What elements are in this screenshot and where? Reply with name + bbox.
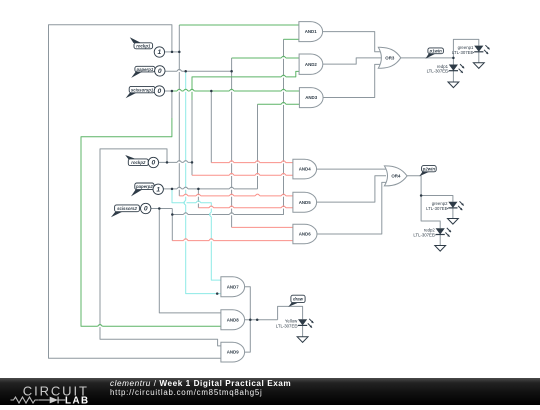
wire hop at 283.5,91.0 <box>281 90 286 92</box>
wire hop at 231.6,162.6 <box>229 162 234 164</box>
wire hop at 283.5,104.2 <box>281 103 286 105</box>
flag paperp2 <box>131 183 154 196</box>
wire hop at 185.7,202.7 <box>185 200 187 205</box>
junction node at 172.0,51.9 <box>171 51 174 54</box>
wire OR4 output <box>407 176 421 196</box>
wire hop at 211.3,207.8 <box>209 207 214 209</box>
wire to greenp2 LED <box>421 196 453 202</box>
ground redp2 <box>435 246 446 252</box>
wire greenp1 cathode to ground <box>478 52 480 63</box>
wire paperp2 branch down <box>197 189 199 208</box>
wire hop at 185.7,188.9 <box>183 188 188 190</box>
value scissors2 = 0 <box>141 203 151 213</box>
OR gate OR4 <box>384 166 407 186</box>
wire hop at 179.3,162.4 <box>177 162 182 164</box>
wire hop at 185.7,91.0 <box>183 90 188 92</box>
CircuitLab logo <box>11 384 90 407</box>
svg-text:draw: draw <box>293 297 304 302</box>
LED greenp2 LTL-307EE <box>426 201 464 211</box>
wire hop at 179.3,71.2 <box>177 70 182 72</box>
svg-text:0: 0 <box>144 206 148 213</box>
wire AND5 output to OR4 <box>317 176 386 202</box>
wire paperp1 cyan bus to AND7 lower <box>186 71 221 293</box>
wire rockp1 to AND5 upper (red) <box>179 195 293 197</box>
wire AND4 output to OR4 <box>317 168 388 170</box>
wire hop at 257.5,195.9 <box>255 195 260 197</box>
AND gate AND6 <box>293 224 317 243</box>
wire hop at 192.0,91.0 <box>190 90 195 92</box>
AND gate AND9 <box>221 342 245 362</box>
svg-text:AND2: AND2 <box>305 62 318 67</box>
wire hop at 185.7,162.4 <box>183 162 188 164</box>
wire hop at 179.3,188.9 <box>177 188 182 190</box>
flag scissors2 <box>111 205 139 217</box>
svg-text:AND8: AND8 <box>227 317 240 322</box>
svg-text:0: 0 <box>152 160 156 167</box>
svg-text:AND1: AND1 <box>305 29 318 34</box>
ground Yellow <box>297 337 308 343</box>
flag p1win <box>425 48 443 59</box>
wire rockp1 to AND1 top (green rail) <box>179 24 299 26</box>
svg-text:0: 0 <box>158 88 162 95</box>
wire scissors2 down-leg <box>171 209 173 241</box>
AND gate AND8 <box>221 310 245 330</box>
svg-text:p1win: p1win <box>429 49 443 54</box>
wire paperp1 to AND2 upper (green) <box>232 57 300 59</box>
svg-text:0: 0 <box>158 68 162 75</box>
svg-text:LTL-307EE: LTL-307EE <box>276 323 298 328</box>
wire hop at 100.0,326.3 <box>98 326 103 328</box>
svg-text:AND9: AND9 <box>227 350 240 355</box>
value rockp1 = 1 <box>154 47 164 57</box>
wire rockp2 row <box>158 161 192 163</box>
value paperp2 = 1 <box>153 184 163 194</box>
svg-text:LTL-307EE: LTL-307EE <box>427 69 449 74</box>
wire hop at 231.6,214.5 <box>229 214 234 216</box>
wire scissorsp1 to AND4 upper (red) <box>211 162 293 164</box>
svg-text:rockp1: rockp1 <box>136 44 151 49</box>
junction node at 185.7,71.2 <box>184 70 187 73</box>
AND gate AND4 <box>293 159 317 179</box>
LED redp1 LTL-307EE <box>427 64 465 74</box>
svg-text:paperp2: paperp2 <box>135 184 153 189</box>
wire hop at 283.5,207.8 <box>281 207 286 209</box>
wire AND7 output down <box>245 287 251 320</box>
wire AND1 output to OR3 <box>323 32 381 52</box>
wire hop at 185.7,195.9 <box>183 195 188 197</box>
wire paperp1 to AND6 upper (red) <box>232 226 293 228</box>
wire Yellow cathode to ground <box>302 325 304 336</box>
wire paperp2 to AND5 lower (red) <box>198 207 293 209</box>
junction node at 192.0,162.4 <box>191 161 194 164</box>
svg-text:LTL-307EE: LTL-307EE <box>413 233 435 238</box>
wire hop at 283.5,58.0 <box>281 57 286 59</box>
wire paperp2 row <box>163 188 257 190</box>
wire scissorsp1 branch down (gray upper) <box>171 91 173 118</box>
wire redp1 cathode to ground <box>452 71 454 82</box>
wire hop at 185.7,240.6 <box>183 240 188 242</box>
wire AND9 output up <box>245 320 251 352</box>
wire hop at 185.7,214.5 <box>183 214 188 216</box>
wire hop at 179.3,91.0 <box>177 90 182 92</box>
AND gate AND1 <box>299 22 323 42</box>
wire scissors2 row <box>151 208 172 210</box>
wire hop at 257.5,175.2 <box>255 174 260 176</box>
svg-text:AND7: AND7 <box>227 284 240 289</box>
wire paperp2 cyan path to AND7 upper <box>172 189 221 280</box>
wire rockp2 up-leg (gray lower part) <box>191 100 193 162</box>
wire AND3 output to OR3 <box>323 64 381 97</box>
wire rockp1 stub <box>165 51 180 53</box>
wire to redp1 LED <box>452 58 454 65</box>
wire rockp2 to AND4 lower (red) <box>192 174 293 176</box>
wire scissorsp1 branch down <box>210 91 212 163</box>
wire AND8 output <box>245 319 278 321</box>
flag rockp2 <box>125 155 148 166</box>
wire to redp2 LED <box>421 196 440 229</box>
wire hop at 231.6,188.9 <box>229 188 234 190</box>
ground redp1 <box>448 82 459 88</box>
wire hop at 283.5,195.9 <box>281 195 286 197</box>
svg-text:rockp2: rockp2 <box>131 160 146 165</box>
junction node at 171.9,91.0 <box>171 90 174 93</box>
svg-text:AND4: AND4 <box>299 167 312 172</box>
OR gate OR3 <box>378 47 401 68</box>
wire hop at 283.5,175.2 <box>281 174 286 176</box>
wire hop at 231.6,91.0 <box>229 90 234 92</box>
wire paperp1 vertical bus <box>231 58 233 227</box>
junction node at 167.0,162.4 <box>166 161 169 164</box>
wire to greenp1 LED <box>453 39 478 58</box>
flag p2win <box>419 166 436 177</box>
junction node at 231.6,71.2 <box>230 70 233 73</box>
wire OR3 output <box>401 57 454 59</box>
title bar <box>0 378 540 405</box>
svg-text:OR4: OR4 <box>391 174 401 179</box>
ground greenp2 <box>448 219 459 225</box>
AND gate AND7 <box>221 277 245 297</box>
flag draw <box>288 295 305 307</box>
wire rockp2 down-leg <box>191 162 193 175</box>
wire hop at 257.5,162.6 <box>255 162 260 164</box>
wire hop at 231.6,175.2 <box>229 174 234 176</box>
junction node at 159.3,208.5 <box>158 207 161 210</box>
svg-text:AND5: AND5 <box>299 200 312 205</box>
wire rockp1 vertical bus <box>178 25 180 196</box>
wire hop at 231.6,207.8 <box>229 207 234 209</box>
AND gate AND3 <box>299 88 323 108</box>
wire greenp2 cathode to ground <box>452 208 454 219</box>
LED greenp1 LTL-307EE <box>452 45 490 55</box>
svg-text:LTL-307EE: LTL-307EE <box>452 50 474 55</box>
wire scissorsp1 row to AND3 upper <box>165 90 172 92</box>
svg-text:LTL-307EE: LTL-307EE <box>426 206 448 211</box>
junction node at 172.3,214.5 <box>171 213 174 216</box>
LED Yellow LTL-307EE <box>276 319 314 329</box>
flag rockp1 <box>130 37 153 49</box>
value paperp1 = 0 <box>155 66 165 76</box>
wire scissors2 branch to AND1 lower bus <box>172 39 283 214</box>
svg-text:scissors2: scissors2 <box>117 206 137 211</box>
wire paperp1 row <box>165 70 232 72</box>
AND gate AND5 <box>293 192 317 212</box>
wire scissors2 to AND8 upper <box>159 209 221 313</box>
wire draw loop to Yellow LED <box>278 306 303 319</box>
svg-text:AND6: AND6 <box>299 232 312 237</box>
wire redp2 cathode to ground <box>439 235 441 246</box>
value rockp2 = 0 <box>148 157 158 167</box>
wire hop at 211.3,240.6 <box>209 240 214 242</box>
wire hop at 283.5,76.9 <box>281 76 286 78</box>
flag paperp1 <box>131 66 155 78</box>
AND gate AND2 <box>299 54 323 74</box>
wire scissorsp1 green left loop to AND8 lower <box>81 118 221 326</box>
wire hop at 283.5,162.6 <box>281 162 286 164</box>
svg-text:scissorsp1: scissorsp1 <box>131 87 154 92</box>
wire scissors2 to AND6 lower (red) <box>172 240 293 242</box>
svg-text:OR3: OR3 <box>385 55 395 60</box>
junction node at 211.3,91.0 <box>210 90 213 93</box>
wire rockp1 left loop to AND9 lower input <box>49 25 221 359</box>
wire hop at 198.4,202.7 <box>196 202 201 204</box>
value scissorsp1 = 0 <box>154 86 164 96</box>
wire rockp2 loop to AND9 upper input <box>100 149 221 346</box>
wire hop at 211.3,214.5 <box>211 212 213 217</box>
svg-text:1: 1 <box>158 49 162 56</box>
ground greenp1 <box>473 63 484 69</box>
flag scissorsp1 <box>126 86 155 98</box>
wire AND6 output to OR4 <box>317 182 388 234</box>
wire AND2 output to OR3 <box>323 58 385 64</box>
wire paperp2 up-leg <box>257 104 259 189</box>
wire rockp2 up-leg to AND2 lower (green) <box>192 71 299 100</box>
junction node at 172.0,188.9 <box>171 188 174 191</box>
junction node at 453.4,57.9 <box>452 57 455 60</box>
wire hop at 231.6,195.9 <box>229 195 234 197</box>
junction node at 257.2,319.8 <box>256 319 259 322</box>
svg-text:paperp1: paperp1 <box>136 67 154 72</box>
svg-text:p2win: p2win <box>422 166 436 171</box>
wire to AND1 lower (green) <box>284 38 299 40</box>
junction node at 198.4,188.9 <box>197 188 200 191</box>
junction node at 250.3,319.8 <box>249 319 252 322</box>
junction node at 421.1,195.5 <box>420 194 423 197</box>
wire paperp2 to AND3 lower (green) <box>258 103 300 105</box>
junction node at 217.2,293.6 <box>216 292 219 295</box>
wire hop at 198.4,195.9 <box>196 195 201 197</box>
svg-text:1: 1 <box>156 186 160 193</box>
junction node at 179.3,51.9 <box>178 51 181 54</box>
svg-text:AND3: AND3 <box>305 95 318 100</box>
LED redp2 LTL-307EE <box>413 228 451 238</box>
svg-text:LAB: LAB <box>65 396 90 405</box>
